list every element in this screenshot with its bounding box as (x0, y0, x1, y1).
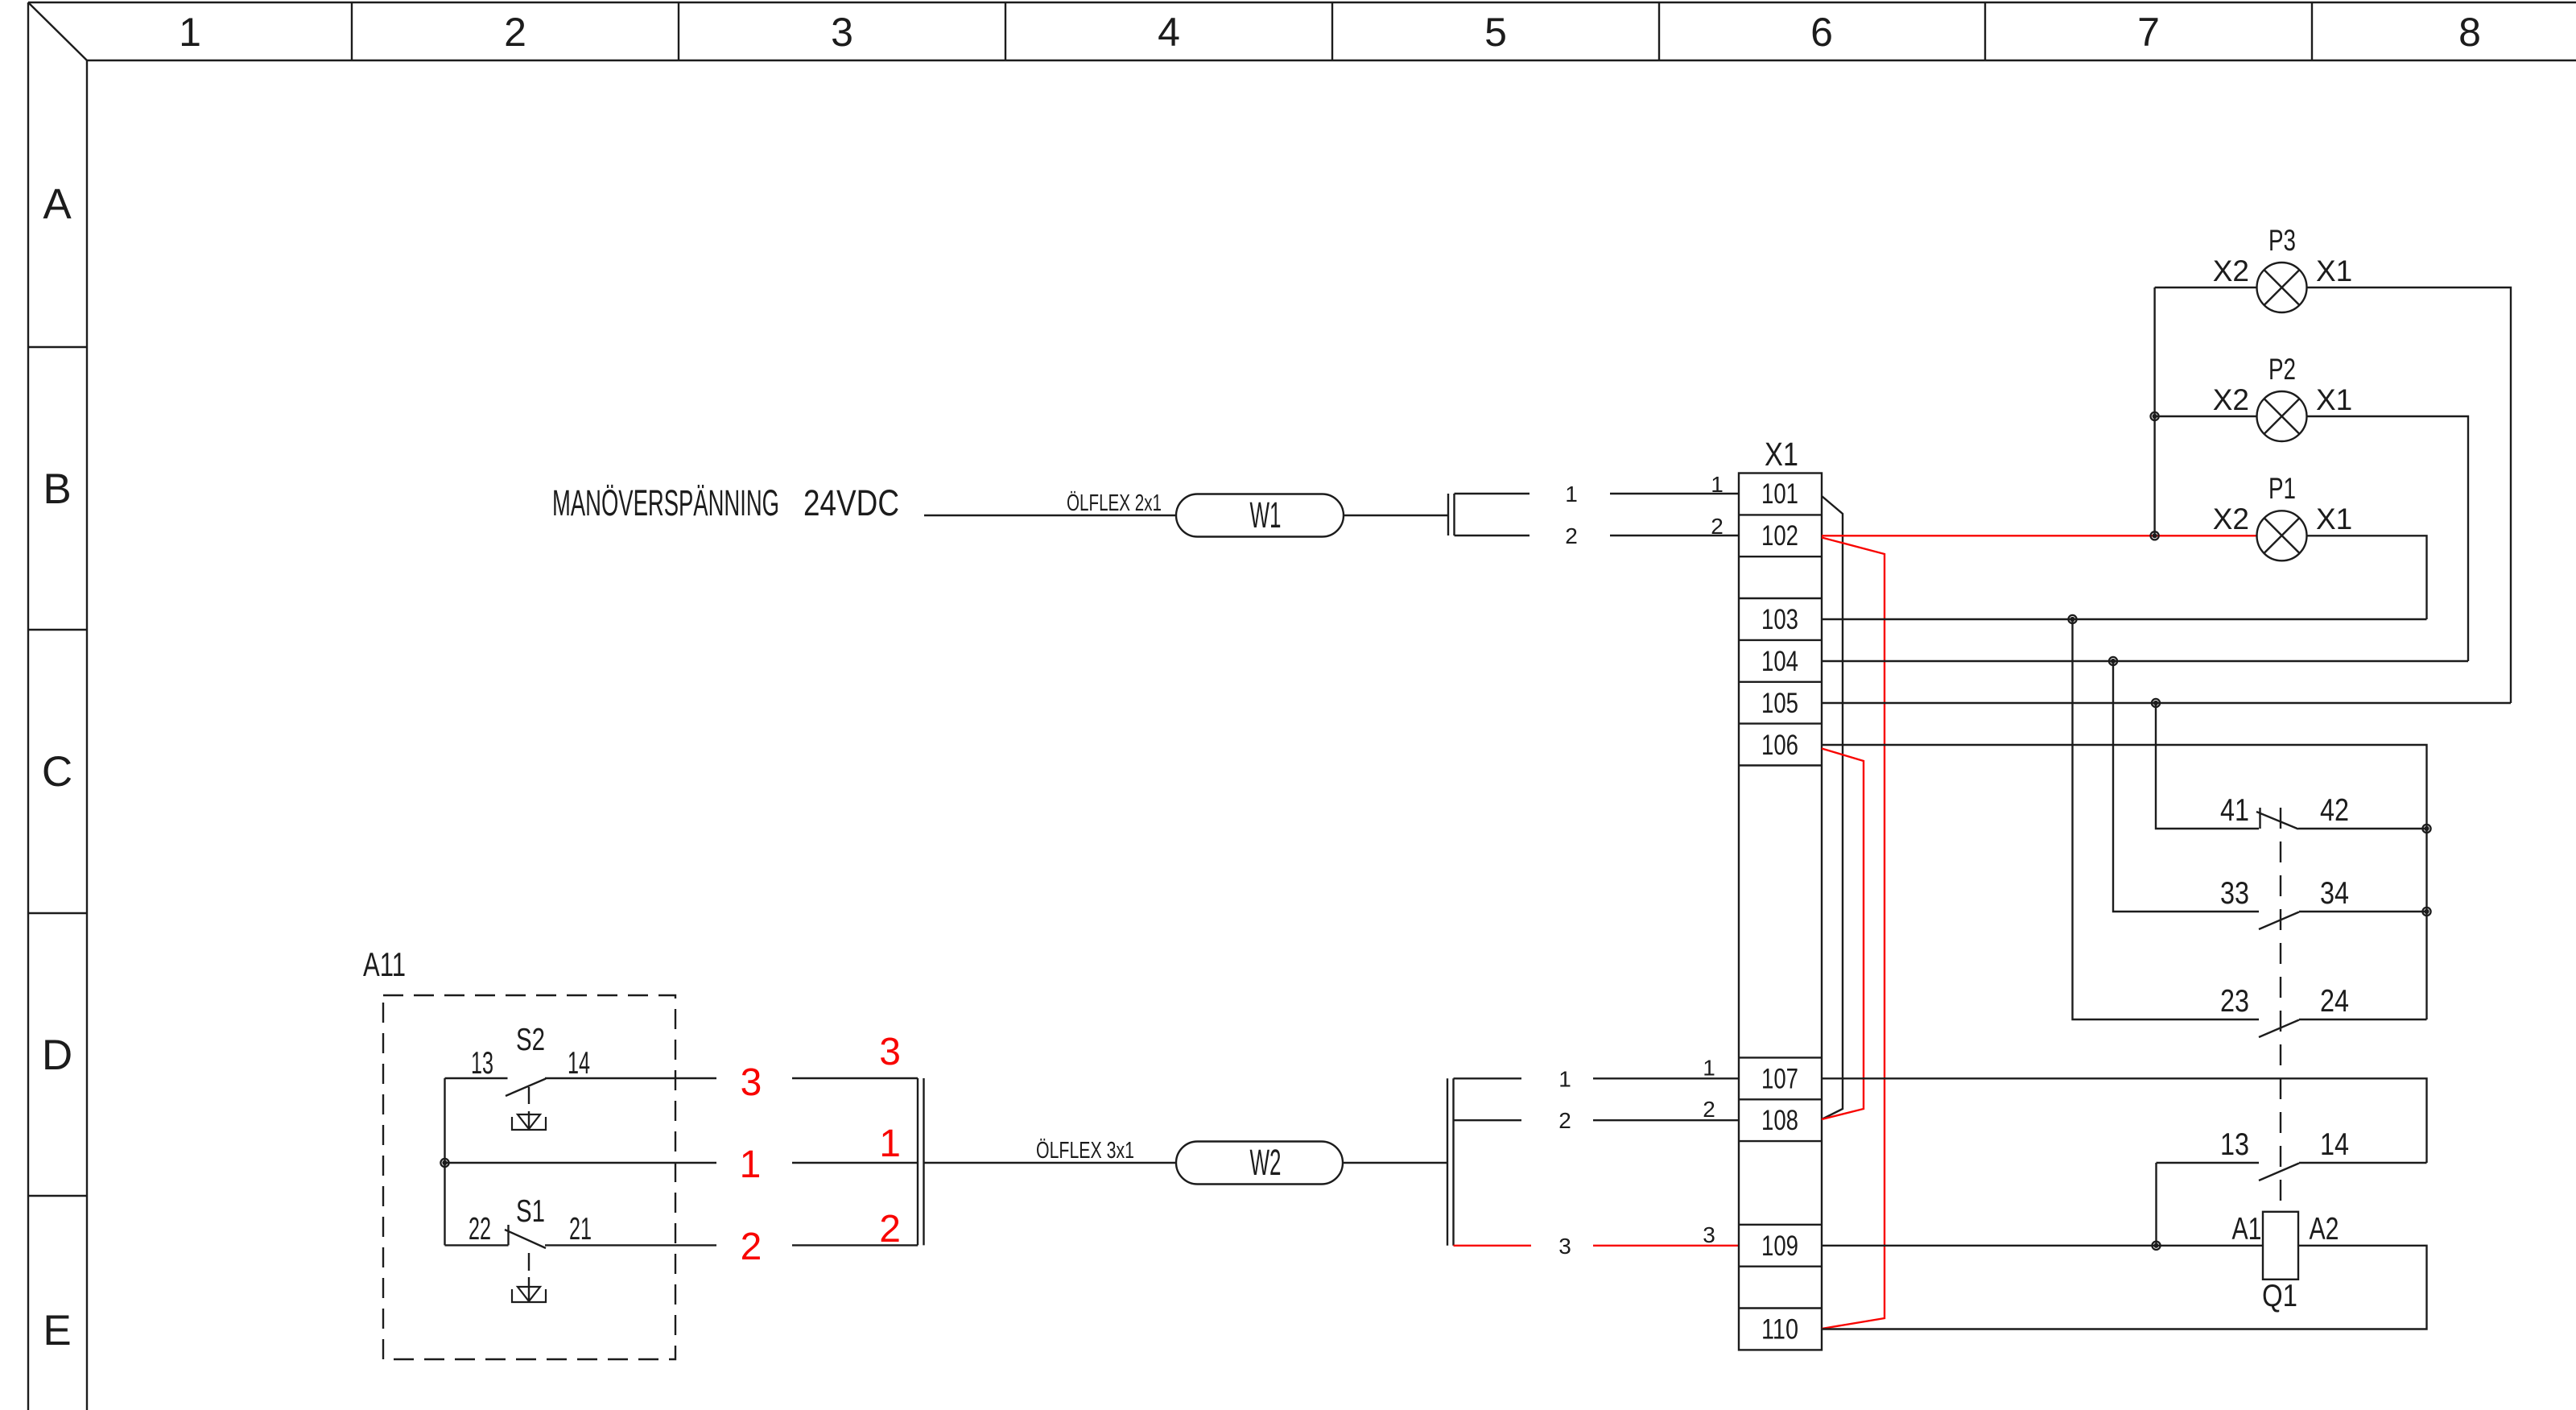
svg-text:14: 14 (2320, 1127, 2349, 1162)
svg-text:2: 2 (1711, 514, 1724, 539)
wire terminal 109 to coil A1 (1822, 1245, 2263, 1247)
switch S2 NO contact (445, 1078, 717, 1096)
svg-text:1: 1 (1711, 472, 1724, 497)
wire lamp P1 right (2307, 535, 2427, 619)
jumper bracket 101 to 108 black (1822, 496, 1843, 1119)
terminal strip X1 body (1739, 473, 1822, 1350)
svg-text:E: E (43, 1307, 71, 1354)
svg-text:W1: W1 (1250, 494, 1282, 535)
row divider ticks (28, 347, 87, 1196)
svg-text:101: 101 (1761, 478, 1798, 510)
svg-text:A: A (43, 180, 72, 228)
wire connector to cable W2 (924, 1162, 1177, 1164)
wire lamp P3 left (2155, 287, 2256, 288)
wire terminal 107 to contact 14 (1822, 1078, 2427, 1163)
wire terminal 104 (1822, 660, 2468, 662)
wire lamp X2 bus vertical (2153, 287, 2155, 535)
wire terminal 102 to lamp P1 red (1822, 535, 2256, 536)
wire S1 to connector segment b (792, 1244, 918, 1246)
wire cable W1 to connector (1344, 515, 1448, 516)
svg-text:7: 7 (2137, 10, 2160, 55)
svg-text:23: 23 (2220, 984, 2249, 1019)
wire S2 to connector segment b (792, 1077, 918, 1079)
cable W1 symbol (1176, 494, 1344, 537)
svg-text:103: 103 (1761, 604, 1798, 635)
connector merge bars W2 left (918, 1078, 924, 1245)
lamp P2 (2257, 391, 2307, 441)
svg-text:C: C (42, 748, 72, 796)
svg-text:B: B (43, 465, 71, 513)
svg-text:108: 108 (1761, 1105, 1798, 1136)
junction 13 branch at coil wire (2152, 1242, 2160, 1250)
svg-text:24: 24 (2320, 984, 2349, 1019)
svg-text:D: D (42, 1032, 72, 1079)
svg-text:S1: S1 (516, 1194, 545, 1229)
svg-text:3: 3 (879, 1031, 901, 1073)
svg-text:X1: X1 (1765, 436, 1798, 473)
border frame inner horizontal line (87, 60, 2576, 61)
wire branch 103 to contact 23 (2073, 619, 2260, 1019)
wire W2 core 2 segment a (1454, 1119, 1522, 1121)
lamp P3 (2257, 263, 2307, 312)
svg-text:Q1: Q1 (2262, 1279, 2297, 1313)
svg-text:3: 3 (831, 10, 853, 55)
wire lamp P2 left (2155, 416, 2256, 417)
svg-text:2: 2 (1703, 1097, 1715, 1122)
svg-text:13: 13 (471, 1046, 493, 1081)
cable W2 symbol (1176, 1142, 1343, 1185)
svg-text:13: 13 (2220, 1127, 2249, 1162)
svg-text:6: 6 (1810, 10, 1833, 55)
wire terminal 105 (1822, 702, 2511, 704)
contact Q1 33-34 NO (2259, 912, 2427, 929)
svg-text:3: 3 (741, 1061, 762, 1104)
switch S1 NC contact (445, 1225, 717, 1248)
svg-text:24VDC: 24VDC (803, 482, 899, 523)
svg-text:MANÖVERSPÄNNING: MANÖVERSPÄNNING (552, 482, 779, 523)
border frame inner vertical line (86, 60, 88, 1410)
svg-text:4: 4 (1158, 10, 1180, 55)
junction 34 at chain (2422, 908, 2430, 916)
wire branch 104 to contact 33 (2113, 661, 2259, 912)
lamp P1 (2257, 511, 2307, 560)
svg-text:2: 2 (504, 10, 526, 55)
wire W1 core 2 segment a (1455, 535, 1530, 536)
svg-text:2: 2 (1565, 523, 1578, 548)
switch S1 mushroom head (512, 1287, 546, 1302)
wire W2 core 1 segment b (1593, 1077, 1739, 1079)
wire W1 core 1 segment a (1455, 493, 1530, 494)
svg-text:102: 102 (1761, 520, 1798, 552)
svg-text:21: 21 (569, 1212, 592, 1247)
border frame corner diagonal (28, 2, 87, 60)
svg-text:1: 1 (879, 1123, 901, 1165)
svg-text:105: 105 (1761, 688, 1798, 719)
svg-text:A11: A11 (363, 945, 406, 983)
junction X2 bus at P1 (2151, 531, 2159, 540)
svg-text:34: 34 (2320, 876, 2349, 911)
svg-text:41: 41 (2220, 793, 2249, 828)
svg-text:106: 106 (1761, 730, 1798, 761)
contact Q1 41-42 NC (2256, 808, 2427, 829)
wire A11 internal bus (444, 1078, 445, 1245)
junction 103 branch (2068, 615, 2076, 623)
svg-text:1: 1 (179, 10, 201, 55)
svg-text:A1: A1 (2232, 1212, 2262, 1247)
wire W1 core 2 segment b (1610, 535, 1739, 536)
switch S2 mushroom head (512, 1114, 546, 1130)
svg-text:14: 14 (568, 1046, 590, 1081)
wire branch 105 to contact 41 (2156, 703, 2259, 829)
svg-text:ÖLFLEX 2x1: ÖLFLEX 2x1 (1067, 490, 1162, 516)
svg-text:X1: X1 (2316, 383, 2352, 416)
svg-text:8: 8 (2458, 10, 2481, 55)
svg-text:2: 2 (1558, 1108, 1571, 1133)
svg-text:109: 109 (1761, 1230, 1798, 1262)
svg-text:P2: P2 (2268, 353, 2296, 386)
wire lamp P3 right (2307, 287, 2512, 703)
svg-text:X2: X2 (2213, 502, 2249, 535)
svg-text:5: 5 (1484, 10, 1507, 55)
svg-text:X1: X1 (2316, 254, 2352, 287)
wire W2 core 3 segment a red (1454, 1245, 1532, 1247)
switch S2 actuator link (528, 1087, 530, 1128)
wire W2 core 1 segment a (1454, 1077, 1522, 1079)
junction 42 at chain (2422, 825, 2430, 833)
wire core 1 segment a (445, 1162, 717, 1164)
wire coil A2 to terminal 110 (1822, 1246, 2427, 1329)
mechanical linkage dashed (2280, 808, 2281, 1210)
svg-text:X2: X2 (2213, 383, 2249, 416)
contact Q1 23-24 NO (2259, 1019, 2427, 1037)
svg-text:1: 1 (1565, 482, 1578, 507)
border frame outer top line (28, 2, 2576, 3)
column divider ticks (352, 2, 2312, 60)
coil Q1 body (2263, 1212, 2298, 1280)
device A11 dashed box (383, 995, 675, 1359)
border frame outer left line (27, 2, 29, 1410)
svg-text:42: 42 (2320, 793, 2349, 828)
svg-text:2: 2 (741, 1226, 762, 1268)
wire terminal 103 (1822, 618, 2427, 620)
svg-text:S2: S2 (516, 1023, 545, 1057)
svg-text:X2: X2 (2213, 254, 2249, 287)
svg-text:22: 22 (469, 1212, 491, 1247)
svg-text:2: 2 (879, 1208, 901, 1251)
svg-text:A2: A2 (2310, 1212, 2339, 1247)
svg-text:33: 33 (2220, 876, 2249, 911)
jumper bracket 106 to 108 red (1822, 749, 1864, 1120)
wire lamp P2 right (2307, 416, 2469, 661)
wire branch contact 13 to coil wire (2157, 1163, 2260, 1246)
svg-text:110: 110 (1761, 1314, 1798, 1346)
connector split bars W2 right (1447, 1078, 1454, 1246)
svg-text:W2: W2 (1250, 1142, 1282, 1183)
svg-text:P1: P1 (2268, 472, 2296, 505)
svg-text:107: 107 (1761, 1063, 1798, 1094)
svg-text:104: 104 (1761, 646, 1798, 677)
switch S1 actuator link (528, 1253, 530, 1300)
wire core 1 segment b (792, 1162, 918, 1164)
junction on bus wire 1 (440, 1159, 448, 1167)
svg-text:1: 1 (740, 1143, 762, 1186)
wire W2 core 2 segment b (1593, 1119, 1739, 1121)
junction 105 branch (2152, 699, 2160, 707)
contact Q1 13-14 NO (2259, 1163, 2427, 1181)
svg-text:X1: X1 (2316, 502, 2352, 535)
junction X2 bus at P2 (2151, 412, 2159, 420)
terminal cell divider lines (1739, 515, 1822, 1308)
wire supply to cable W1 (924, 515, 1176, 516)
wire W2 core 3 segment b red (1593, 1245, 1739, 1247)
svg-text:P3: P3 (2268, 224, 2296, 257)
jumper bracket 102 to 110 red (1822, 538, 1885, 1329)
svg-text:1: 1 (1558, 1066, 1571, 1091)
wire cable W2 to connector (1343, 1162, 1447, 1164)
connector split bars W1 (1448, 494, 1455, 535)
wire W1 core 1 segment b (1610, 493, 1739, 494)
wire terminal 106 to contact chain (1822, 745, 2427, 1019)
svg-text:ÖLFLEX 3x1: ÖLFLEX 3x1 (1036, 1138, 1134, 1164)
junction 104 branch (2109, 657, 2117, 665)
svg-text:3: 3 (1558, 1234, 1571, 1259)
svg-text:1: 1 (1703, 1055, 1715, 1080)
svg-text:3: 3 (1703, 1222, 1715, 1247)
